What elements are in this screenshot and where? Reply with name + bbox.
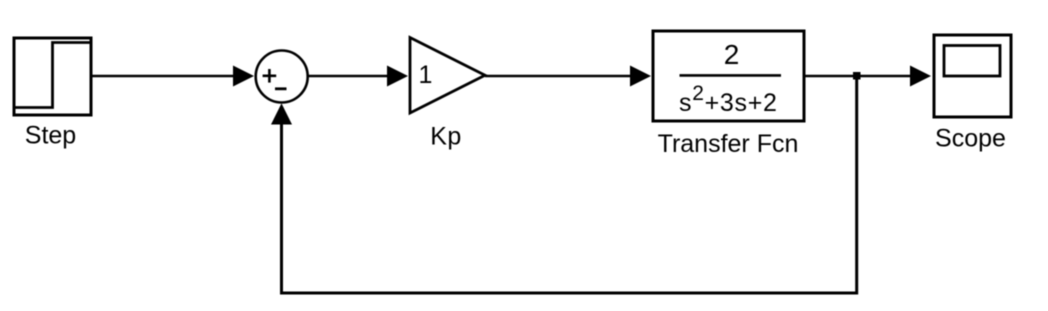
transfer function block Transfer Fcn [653, 31, 804, 121]
wire Kp to Transfer Fcn [485, 66, 651, 87]
svg-text:2: 2 [724, 39, 740, 70]
wire Sum to Kp [308, 66, 408, 87]
step source block Step [13, 38, 91, 115]
svg-text:Scope: Scope [935, 125, 1006, 153]
svg-text:1: 1 [419, 61, 433, 89]
minus sign [275, 87, 287, 90]
gain block Kp [410, 38, 485, 114]
feedback wire [271, 79, 857, 293]
wire Transfer Fcn to Scope [804, 66, 931, 87]
junction node [853, 72, 861, 80]
wire Step to Sum [91, 66, 254, 87]
svg-text:Transfer Fcn: Transfer Fcn [658, 130, 799, 158]
scope block Scope [934, 35, 1011, 117]
svg-text:Kp: Kp [430, 123, 462, 151]
svg-text:Step: Step [25, 122, 76, 150]
summing junction Sum [256, 51, 308, 103]
plus sign [263, 69, 277, 83]
